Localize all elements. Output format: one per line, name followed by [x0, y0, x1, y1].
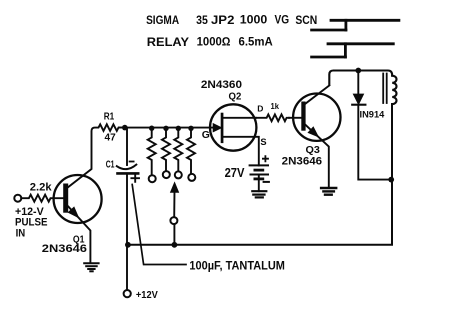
svg-text:Q2: Q2 [229, 92, 242, 103]
svg-text:+12V: +12V [136, 290, 158, 301]
svg-text:VG: VG [275, 13, 290, 27]
svg-text:D: D [257, 104, 263, 114]
svg-text:47: 47 [105, 132, 117, 143]
svg-text:PULSE: PULSE [15, 216, 48, 228]
svg-text:1000: 1000 [240, 13, 268, 27]
svg-text:R1: R1 [104, 111, 115, 122]
svg-text:1000Ω: 1000Ω [197, 35, 231, 49]
svg-text:SIGMA: SIGMA [146, 13, 179, 27]
svg-text:6.5mA: 6.5mA [239, 35, 274, 49]
svg-text:1k: 1k [271, 101, 280, 111]
svg-text:27V: 27V [225, 166, 245, 180]
svg-text:2.2k: 2.2k [30, 182, 53, 194]
svg-text:RELAY: RELAY [147, 35, 189, 49]
svg-text:IN914: IN914 [360, 109, 385, 119]
svg-text:2N3646: 2N3646 [282, 156, 322, 168]
svg-text:100µF, TANTALUM: 100µF, TANTALUM [189, 261, 285, 273]
svg-text:S: S [260, 137, 266, 147]
svg-text:IN: IN [16, 228, 26, 240]
svg-text:C1: C1 [106, 159, 115, 170]
svg-text:G: G [202, 130, 210, 141]
svg-text:Q3: Q3 [306, 145, 321, 156]
svg-text:SCN: SCN [295, 13, 317, 27]
svg-text:2N4360: 2N4360 [201, 79, 242, 91]
svg-text:JP2: JP2 [211, 13, 235, 27]
svg-text:2N3646: 2N3646 [42, 243, 87, 255]
svg-text:35: 35 [196, 13, 208, 27]
